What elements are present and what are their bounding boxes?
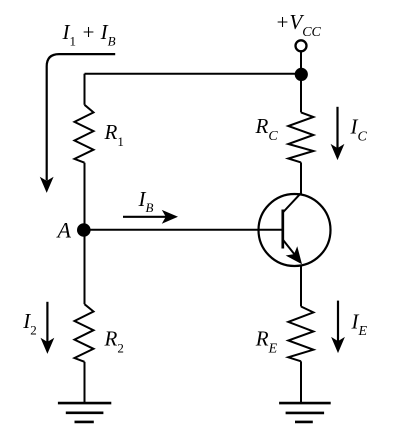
resistor Re [288, 307, 313, 362]
svg-text:R2: R2 [104, 327, 124, 356]
wire Rc to collector [300, 162, 302, 193]
label R1 [104, 120, 124, 149]
resistor R2 [75, 304, 94, 362]
resistor R1 [75, 105, 94, 163]
svg-text:+VCC: +VCC [275, 10, 321, 40]
junction dot [295, 68, 308, 81]
wire base [84, 229, 283, 231]
transistor Q1 [259, 193, 331, 269]
label +Vcc [275, 10, 321, 40]
wire R2 to ground [84, 362, 86, 403]
ground right [279, 403, 331, 422]
wire emitter to Re [300, 265, 302, 307]
label Ie [351, 310, 368, 339]
wire node A to R2 [84, 230, 86, 304]
wire Re to ground [300, 361, 302, 403]
svg-text:RC: RC [255, 114, 279, 144]
label A [56, 218, 72, 243]
label IB [138, 187, 154, 215]
label Rc [255, 114, 279, 144]
label R2 [104, 327, 124, 356]
label I1+IB [62, 20, 116, 49]
current arrow IB [123, 210, 178, 224]
svg-text:IB: IB [138, 187, 154, 215]
current arrow I2 [41, 302, 55, 354]
label I2 [22, 309, 37, 338]
svg-text:IE: IE [351, 310, 368, 339]
svg-text:I1 + IB: I1 + IB [62, 20, 116, 49]
svg-text:I2: I2 [22, 309, 37, 338]
wire junction to Rc [300, 74, 302, 112]
wire left column top [84, 74, 86, 105]
resistor Rc [288, 112, 313, 162]
Vcc terminal [296, 40, 307, 51]
node A [77, 223, 91, 237]
svg-text:IC: IC [350, 114, 368, 144]
current arrow I1+IB loop [40, 54, 115, 193]
label Re [255, 326, 278, 356]
ground left [58, 403, 111, 422]
wire top rail [85, 73, 302, 75]
label Ic [350, 114, 368, 144]
wire Vcc to junction [300, 51, 302, 74]
current arrow Ic [331, 107, 345, 160]
svg-text:RE: RE [255, 326, 278, 356]
current arrow Ie [331, 301, 345, 354]
svg-text:R1: R1 [104, 120, 124, 149]
wire R1 to node A [84, 163, 86, 230]
svg-text:A: A [56, 218, 72, 243]
